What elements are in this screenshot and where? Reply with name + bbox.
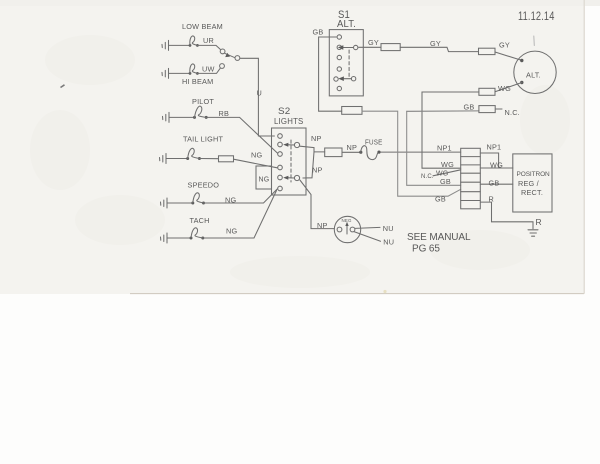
paper right edge <box>583 0 585 294</box>
svg-text:NP: NP <box>311 134 322 143</box>
wire U <box>240 58 274 136</box>
dimmer switch contact HI <box>220 64 225 69</box>
S2 wiper A <box>283 143 294 147</box>
svg-text:NG: NG <box>225 196 236 205</box>
svg-text:GB: GB <box>440 177 451 186</box>
P1 pin L <box>337 227 342 232</box>
wire GB out <box>480 183 513 185</box>
S1 common A <box>354 45 358 49</box>
S1 dashed bar <box>348 50 350 77</box>
paper sheet <box>0 0 585 294</box>
resistor (tail NG) <box>219 156 234 162</box>
svg-text:NG: NG <box>259 177 270 184</box>
wire NP to resistor <box>300 146 325 152</box>
svg-text:NP: NP <box>312 166 323 175</box>
svg-text:11.12.14: 11.12.14 <box>518 11 555 23</box>
svg-text:FUSE: FUSE <box>365 138 383 147</box>
svg-text:WG: WG <box>490 161 503 170</box>
svg-text:NG: NG <box>251 151 262 160</box>
lamp LOW BEAM <box>189 36 199 47</box>
wire <box>342 151 359 153</box>
S2 dashed bar <box>290 140 292 182</box>
svg-text:GB: GB <box>313 28 324 37</box>
S1 pin 1 <box>337 35 341 39</box>
lamp PILOT <box>193 106 208 119</box>
svg-text:GY: GY <box>430 39 441 48</box>
wire <box>199 158 218 160</box>
wire WG left and down <box>422 92 479 168</box>
S2 pin 4 <box>278 165 283 170</box>
ground (low beam) <box>162 40 169 50</box>
wire R out <box>480 202 533 229</box>
svg-text:R: R <box>489 195 494 204</box>
ground (pilot) <box>163 112 170 122</box>
lamp SPEEDO <box>191 193 205 205</box>
switch S2 body <box>272 128 307 195</box>
wire <box>169 116 195 118</box>
ground (hi beam) <box>162 68 169 78</box>
resistor (GY 1) <box>381 44 400 51</box>
P1 pin R <box>350 227 355 232</box>
S1 pin 4 <box>337 67 341 71</box>
svg-text:UR: UR <box>203 36 214 45</box>
ALT terminal GY <box>520 59 523 62</box>
ALT terminal WG <box>520 81 523 84</box>
alternator ALT <box>514 51 556 93</box>
S1 pin 6 <box>337 86 341 90</box>
wire <box>167 202 193 204</box>
lamp HI BEAM <box>189 64 199 75</box>
svg-text:RB: RB <box>219 109 230 118</box>
regulator box <box>513 154 552 212</box>
wire <box>167 237 191 239</box>
S1 wiper A <box>338 45 354 50</box>
svg-text:WG: WG <box>498 84 511 93</box>
wire GY 2 <box>400 47 478 51</box>
resistor (GY 2) <box>479 48 496 54</box>
S1 pin 2 <box>337 45 341 49</box>
svg-text:R: R <box>536 217 542 227</box>
wire to ALT <box>495 52 522 60</box>
ground (tail light) <box>160 154 167 164</box>
svg-text:TAIL LIGHT: TAIL LIGHT <box>183 135 223 144</box>
S2 pin 1 <box>278 134 283 139</box>
S1 pin 3 <box>337 55 341 59</box>
connector P1 (round) <box>334 216 360 242</box>
wire <box>169 44 191 46</box>
svg-text:UW: UW <box>202 65 215 74</box>
S2 wiper B <box>283 176 294 180</box>
svg-text:PILOT: PILOT <box>192 97 214 106</box>
svg-text:NU: NU <box>383 224 394 233</box>
wire NP mid <box>303 152 314 178</box>
svg-text:GB: GB <box>435 195 446 204</box>
svg-text:POSITRON: POSITRON <box>517 171 551 178</box>
S2 common B <box>294 175 299 180</box>
S2 pin 6 <box>278 186 283 191</box>
wire NG <box>203 191 277 239</box>
NG box <box>256 166 272 189</box>
svg-text:LIGHTS: LIGHTS <box>274 117 304 126</box>
wire NG <box>204 189 278 203</box>
dimmer switch common <box>235 56 240 61</box>
wire WG <box>495 83 522 92</box>
wire NP1 out <box>480 153 498 168</box>
wire GB down <box>362 111 461 196</box>
svg-text:NP1: NP1 <box>437 144 452 153</box>
wire NP down to connector <box>300 180 334 229</box>
wire <box>169 72 191 74</box>
resistor (GB NC) <box>479 106 495 113</box>
wire NG <box>234 159 278 168</box>
wire GB from S1 <box>319 37 342 111</box>
S1 pin 5 <box>334 77 338 81</box>
ground (R earth) <box>528 230 538 236</box>
wire NU upper <box>355 227 380 228</box>
svg-text:TACH: TACH <box>190 216 210 225</box>
switch S1 body <box>329 30 363 96</box>
svg-text:GB: GB <box>489 179 500 188</box>
svg-text:NP: NP <box>347 143 358 152</box>
resistor (WG) <box>479 88 495 95</box>
S1 common B <box>351 77 355 81</box>
wire WG out <box>480 167 513 169</box>
svg-text:SPEEDO: SPEEDO <box>188 181 220 190</box>
svg-text:NP1: NP1 <box>487 143 502 152</box>
dimmer wiper <box>225 53 235 58</box>
lamp TACH <box>190 228 205 240</box>
paper bottom edge <box>130 293 584 295</box>
dimmer switch contact LOW <box>220 49 225 54</box>
S2 pin 3 <box>278 152 283 157</box>
svg-text:SEE MANUAL: SEE MANUAL <box>407 232 471 243</box>
svg-text:LOW BEAM: LOW BEAM <box>182 22 223 31</box>
svg-text:GB: GB <box>464 103 475 112</box>
svg-text:NU: NU <box>383 238 394 247</box>
svg-text:ALT.: ALT. <box>337 19 356 30</box>
wire <box>197 69 220 74</box>
svg-text:GY: GY <box>499 41 510 50</box>
svg-text:PG 65: PG 65 <box>412 244 440 255</box>
svg-text:NG: NG <box>226 227 237 236</box>
speck <box>61 85 65 88</box>
connector NP1 block <box>461 148 481 209</box>
S2 common A <box>294 142 299 147</box>
P1 key arrow <box>345 222 348 234</box>
S2 pin 2 <box>278 142 283 147</box>
lamp TAIL <box>186 148 201 160</box>
svg-text:ALT.: ALT. <box>526 71 541 80</box>
fuse <box>359 146 380 160</box>
wire GB NC <box>407 110 479 112</box>
wire NC stub <box>496 108 502 110</box>
svg-text:REG /: REG / <box>518 179 540 188</box>
wire NU lower <box>354 232 380 242</box>
resistor (NP) <box>325 148 342 157</box>
svg-text:NEG: NEG <box>342 218 352 223</box>
svg-text:RECT.: RECT. <box>521 188 543 197</box>
stray mark <box>533 36 536 46</box>
wire GB to connector <box>407 111 461 185</box>
svg-text:NP: NP <box>317 221 328 230</box>
wire NP1 <box>381 151 461 153</box>
svg-text:GY: GY <box>368 38 379 47</box>
svg-text:HI BEAM: HI BEAM <box>182 77 213 86</box>
svg-text:N.C.: N.C. <box>505 108 520 117</box>
S2 pin 5 <box>278 175 283 180</box>
svg-text:N.C.: N.C. <box>421 174 434 180</box>
svg-text:U: U <box>257 89 262 98</box>
wire <box>166 158 188 160</box>
wire WG NC diagonal <box>433 170 461 176</box>
wire RB <box>206 117 277 153</box>
ground (tach) <box>161 233 168 243</box>
speck yellow <box>383 290 386 293</box>
wire <box>197 45 220 49</box>
svg-text:WG: WG <box>441 160 454 169</box>
S1 wiper B <box>338 76 351 81</box>
ground (speedo) <box>161 198 168 208</box>
wire GY <box>359 46 381 48</box>
svg-text:S2: S2 <box>278 106 291 116</box>
resistor (GB) <box>342 107 362 115</box>
